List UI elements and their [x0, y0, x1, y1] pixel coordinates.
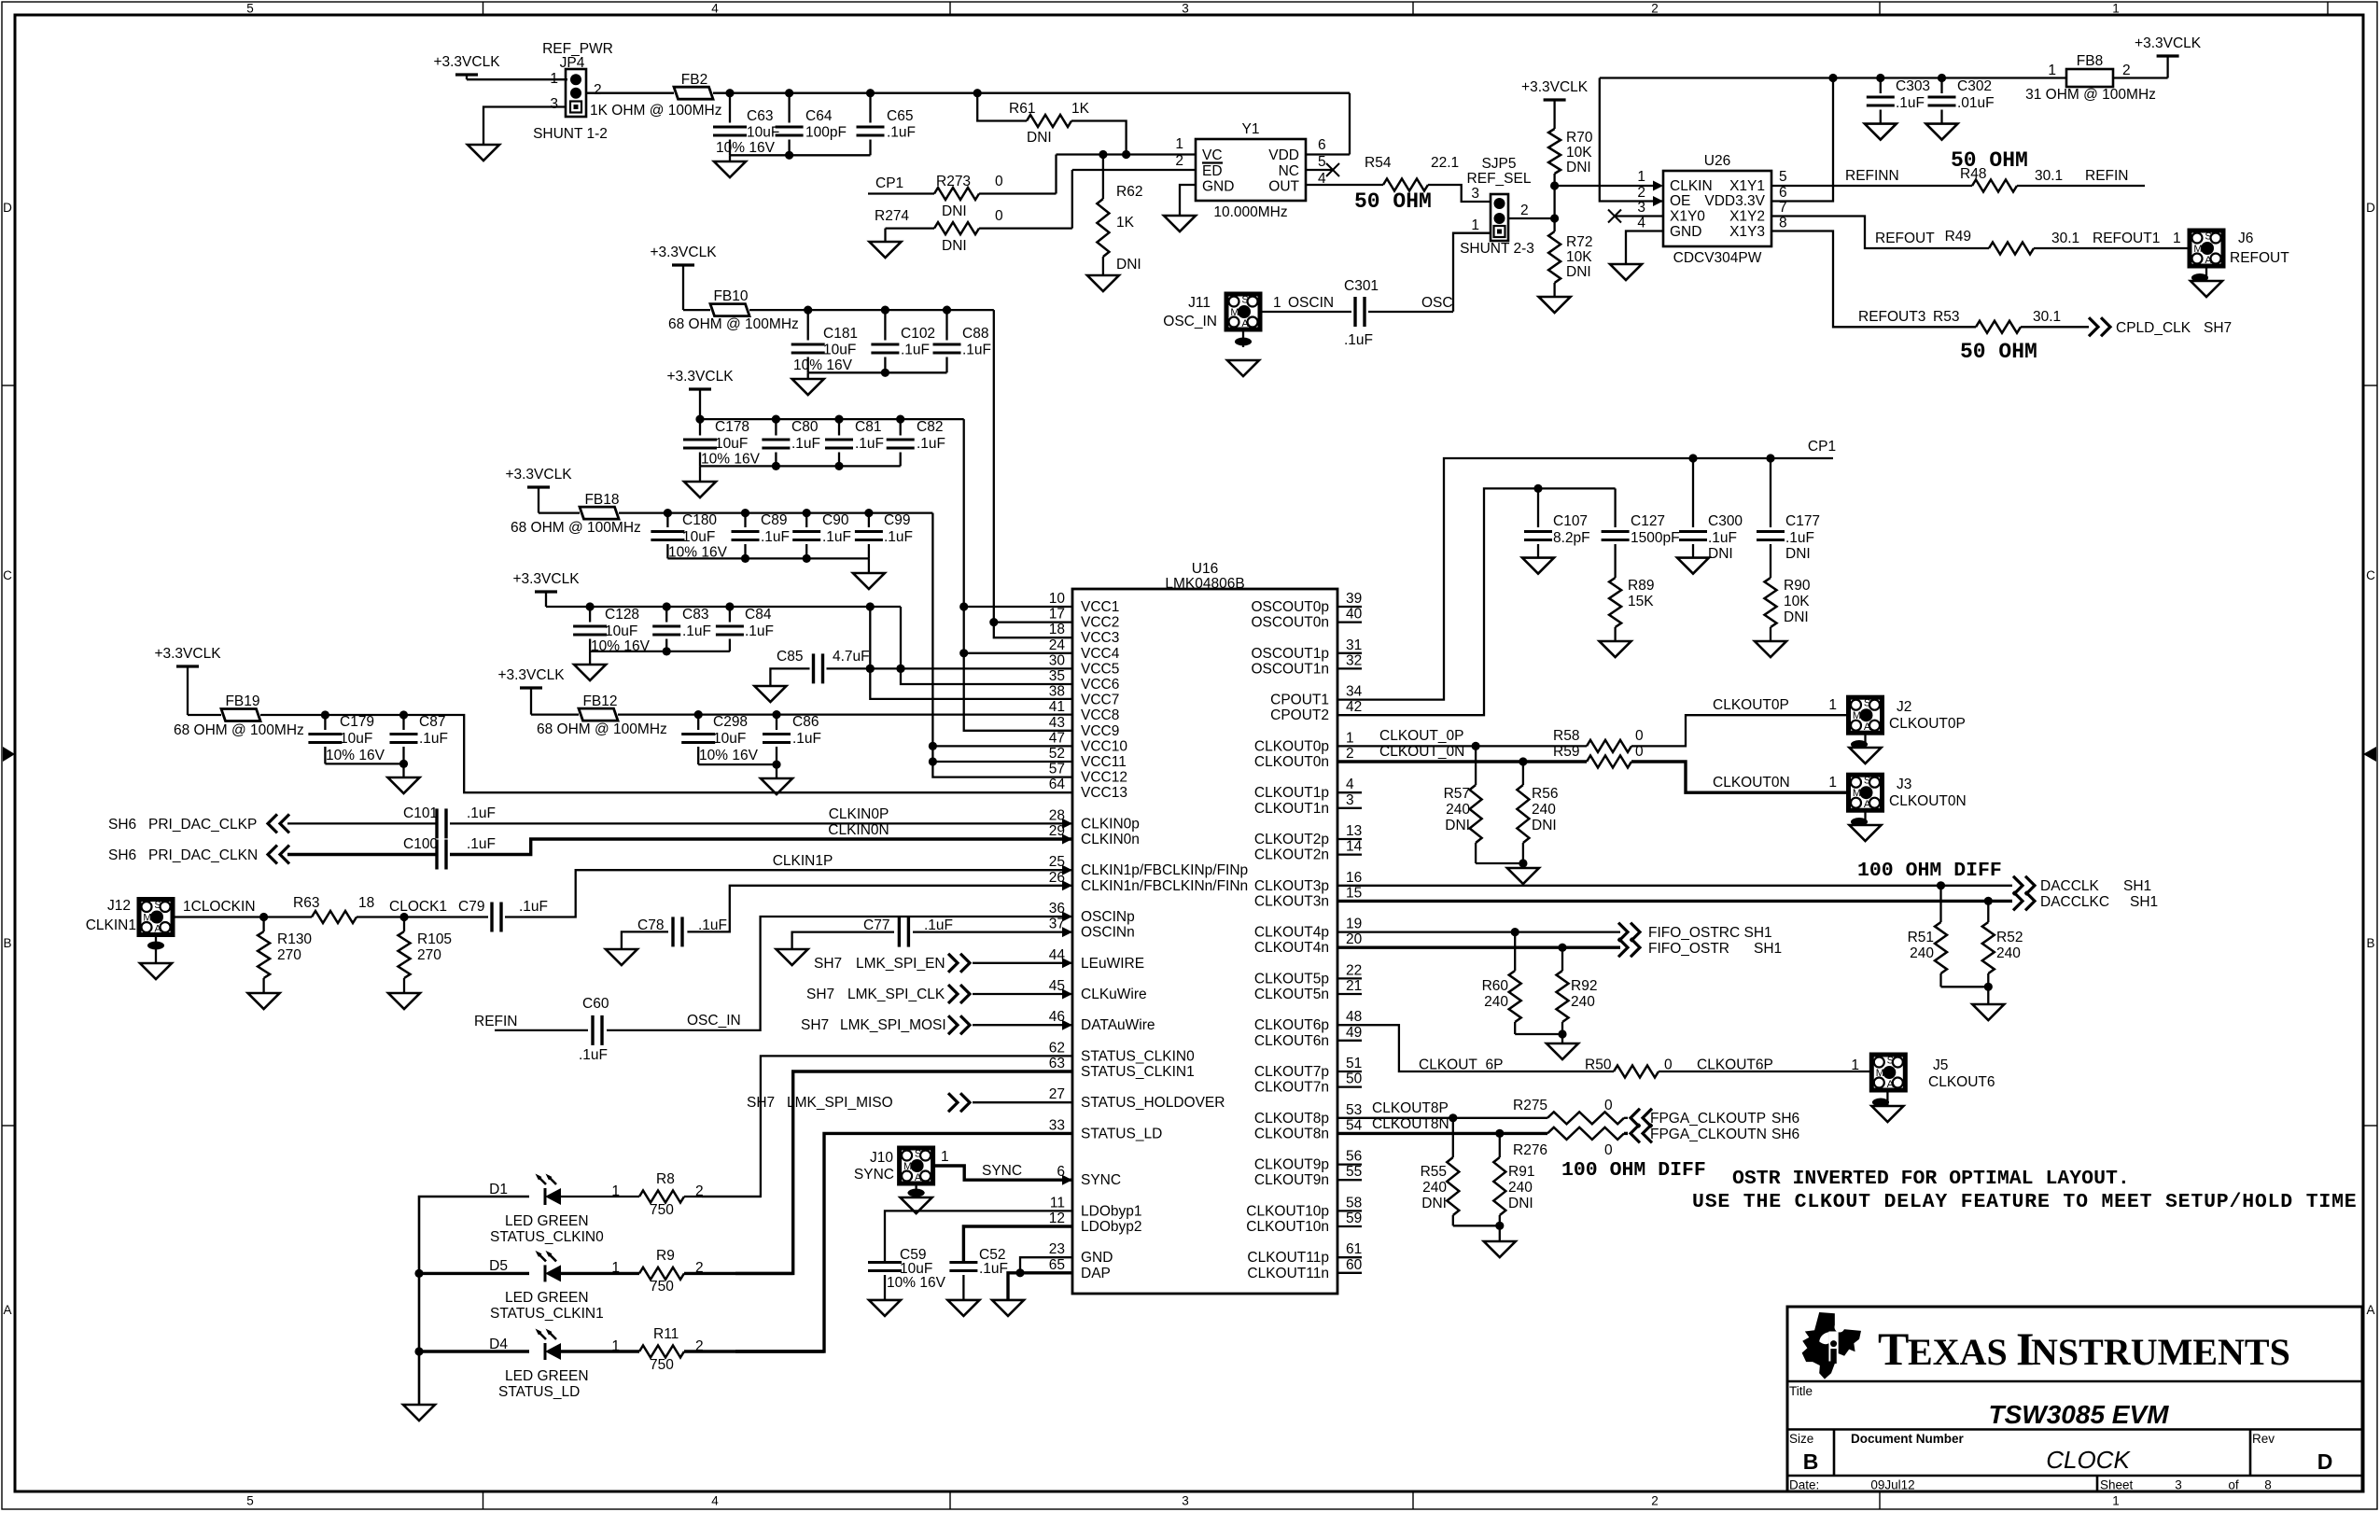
svg-text:61: 61	[1346, 1241, 1362, 1257]
wire R50 to J5	[1659, 1071, 1871, 1072]
U16 pin 64 (VCC13)	[1049, 777, 1127, 801]
svg-text:VCC6: VCC6	[1081, 677, 1119, 693]
svg-text:CLOCK: CLOCK	[2046, 1446, 2131, 1474]
svg-text:VCC11: VCC11	[1081, 754, 1127, 770]
svg-text:15: 15	[1346, 885, 1362, 901]
svg-text:43: 43	[1049, 715, 1065, 731]
svg-text:1: 1	[550, 71, 558, 87]
wire CLKOUT8p (pin53)	[1337, 1117, 1547, 1119]
svg-text:33: 33	[1049, 1117, 1065, 1133]
svg-text:R59: R59	[1553, 744, 1579, 760]
svg-text:3: 3	[1346, 792, 1354, 808]
svg-text:X1Y0: X1Y0	[1670, 209, 1705, 225]
svg-text:SYNC: SYNC	[854, 1167, 894, 1183]
svg-text:.1uF: .1uF	[1896, 95, 1925, 111]
svg-text:R56: R56	[1532, 786, 1558, 802]
svg-text:C127: C127	[1631, 513, 1665, 529]
svg-text:64: 64	[1049, 777, 1066, 792]
svg-text:09Jul12: 09Jul12	[1870, 1478, 1914, 1492]
svg-text:LED GREEN: LED GREEN	[505, 1290, 589, 1306]
svg-text:CLKOUT_6P: CLKOUT_6P	[1419, 1057, 1503, 1073]
svg-text:.1uF: .1uF	[887, 125, 916, 141]
svg-text:27: 27	[1049, 1086, 1065, 1102]
svg-text:S: S	[1864, 776, 1870, 787]
svg-text:CLKOUT3n: CLKOUT3n	[1254, 893, 1329, 909]
LED D5 (STATUS_CLKIN1)	[544, 1265, 547, 1281]
capacitor C180	[666, 513, 668, 527]
U16 pin 12 (LDObyp2)	[1049, 1211, 1142, 1235]
wire STATUS_LD (pin33 to R11)	[735, 1133, 1072, 1351]
svg-text:CLKOUT8P: CLKOUT8P	[1372, 1100, 1449, 1116]
svg-text:.1uF: .1uF	[698, 917, 727, 933]
svg-text:.1uF: .1uF	[682, 623, 711, 639]
svg-text:240: 240	[1910, 945, 1934, 961]
connector J6 REFOUT	[2190, 231, 2223, 266]
svg-text:A: A	[2366, 1303, 2374, 1317]
svg-text:CLKIN1n/FBCLKINn/FINn: CLKIN1n/FBCLKINn/FINn	[1081, 878, 1248, 894]
svg-text:REFOUT1: REFOUT1	[2093, 231, 2160, 246]
svg-text:DNI: DNI	[942, 238, 967, 254]
ground (C300)	[1677, 558, 1709, 574]
wire CLKIN0N left	[287, 853, 436, 856]
wire Y1 pin1 (VC) net	[1057, 153, 1197, 155]
svg-text:18: 18	[1049, 622, 1065, 637]
svg-text:DNI: DNI	[1566, 264, 1591, 280]
svg-text:M: M	[143, 913, 151, 924]
svg-text:62: 62	[1049, 1040, 1065, 1056]
wire R275 to FPGA_CLKOUTP	[1624, 1117, 1628, 1119]
wire C181/C102/C88 ground rail	[808, 371, 947, 373]
svg-text:.1uF: .1uF	[924, 917, 953, 933]
wire R51/R52 ground rail	[1941, 986, 1989, 987]
svg-text:OSC: OSC	[1421, 295, 1453, 311]
svg-text:OSCOUT0n: OSCOUT0n	[1251, 615, 1329, 631]
svg-text:REFINN: REFINN	[1845, 168, 1899, 184]
svg-text:STATUS_CLKIN0: STATUS_CLKIN0	[490, 1229, 604, 1245]
resistor R52	[1987, 901, 1989, 922]
svg-text:R48: R48	[1960, 166, 1986, 182]
svg-text:3: 3	[1182, 1494, 1189, 1508]
svg-text:STATUS_HOLDOVER: STATUS_HOLDOVER	[1081, 1095, 1225, 1111]
svg-text:3: 3	[1637, 200, 1645, 216]
svg-text:D5: D5	[489, 1258, 508, 1274]
svg-text:SHUNT 1-2: SHUNT 1-2	[533, 126, 608, 142]
wire D4 anode to R11	[561, 1350, 639, 1352]
svg-text:FB2: FB2	[681, 72, 707, 88]
svg-text:65: 65	[1049, 1257, 1065, 1273]
svg-text:VCC10: VCC10	[1081, 738, 1127, 754]
off-page arrow PRI_DAC_CLKP	[268, 814, 289, 833]
svg-text:100pF: 100pF	[805, 125, 847, 141]
connector J2 CLKOUT0P	[1849, 697, 1883, 733]
svg-text:CLKIN0p: CLKIN0p	[1081, 816, 1140, 832]
svg-text:DNI: DNI	[1566, 160, 1591, 175]
U16 pin 4 (CLKOUT1p)	[1254, 777, 1362, 801]
U16 pin 3 (CLKOUT1n)	[1254, 792, 1362, 817]
svg-text:34: 34	[1346, 684, 1363, 700]
svg-text:Sheet: Sheet	[2100, 1478, 2134, 1492]
svg-text:X1Y3: X1Y3	[1729, 224, 1765, 240]
ground (LED bus)	[403, 1405, 435, 1421]
svg-text:CP1: CP1	[1808, 439, 1836, 455]
ground (C63 rail)	[714, 161, 746, 177]
svg-text:CLKOUT2n: CLKOUT2n	[1254, 847, 1329, 863]
svg-text:CLKOUT9p: CLKOUT9p	[1254, 1157, 1329, 1173]
svg-text:A: A	[1864, 799, 1871, 810]
svg-text:16: 16	[1346, 870, 1362, 886]
svg-text:R8: R8	[656, 1171, 675, 1187]
wire CLKOUT4n FIFO_OSTR	[1337, 946, 1620, 949]
svg-text:CLKOUT1n: CLKOUT1n	[1254, 801, 1329, 817]
svg-text:1: 1	[1637, 169, 1645, 185]
U16 pin 27 (STATUS_HOLDOVER)	[1049, 1086, 1225, 1111]
svg-text:270: 270	[277, 947, 301, 963]
U16 pin 34 (CPOUT1)	[1270, 684, 1362, 708]
svg-text:CLKOUT6P: CLKOUT6P	[1697, 1057, 1773, 1073]
wire R11 out	[684, 1350, 824, 1352]
svg-text:240: 240	[1996, 945, 2021, 961]
svg-text:24: 24	[1049, 637, 1066, 653]
wire CLKOUT3p DACCLK	[1337, 885, 2012, 887]
svg-text:D: D	[3, 201, 12, 215]
svg-text:CLKOUT0P: CLKOUT0P	[1713, 697, 1789, 713]
U16 pin 6 (SYNC)	[1057, 1164, 1121, 1188]
svg-text:10K: 10K	[1566, 249, 1592, 265]
ground (J2)	[1850, 748, 1882, 763]
wire REFIN net	[2017, 185, 2145, 187]
ground (C78)	[606, 949, 637, 965]
svg-text:FB12: FB12	[582, 693, 617, 709]
svg-text:23: 23	[1049, 1241, 1065, 1257]
svg-text:100 OHM DIFF: 100 OHM DIFF	[1857, 860, 2002, 882]
svg-text:C89: C89	[761, 512, 787, 528]
U16 pin 41 (VCC8)	[1049, 699, 1120, 723]
J2 ground via	[1864, 733, 1866, 748]
svg-text:270: 270	[417, 947, 441, 963]
Y1 pin3 GND wire	[1180, 185, 1196, 216]
svg-text:2: 2	[1637, 185, 1645, 201]
svg-text:3: 3	[2175, 1478, 2182, 1492]
svg-text:1: 1	[1175, 136, 1183, 152]
svg-text:21: 21	[1346, 978, 1362, 994]
svg-text:31: 31	[1346, 637, 1362, 653]
wire OSC_IN to pin36	[607, 917, 1072, 1030]
svg-text:5: 5	[1318, 154, 1326, 170]
wire REFINN net	[1771, 185, 1972, 187]
svg-text:CLKOUT11p: CLKOUT11p	[1247, 1250, 1329, 1266]
wire FB10 rail to U16 VCC2/VCC3	[994, 310, 1072, 637]
svg-text:DNI: DNI	[1027, 130, 1052, 146]
wire R9 out	[684, 1272, 793, 1275]
power symbol +3.3VCLK (FB18)	[527, 485, 550, 488]
U16 pin 45 (CLKuWire)	[1049, 978, 1147, 1002]
U16 pin 57 (VCC12)	[1049, 762, 1127, 786]
U16 pin 29 (CLKIN0n)	[1049, 823, 1140, 847]
wire CLKOUT8n (pin54)	[1337, 1132, 1547, 1135]
svg-text:CPOUT1: CPOUT1	[1270, 693, 1329, 708]
svg-text:VCC2: VCC2	[1081, 615, 1119, 631]
svg-text:FB18: FB18	[584, 492, 619, 508]
svg-text:CP1: CP1	[875, 175, 903, 191]
svg-text:31 OHM @ 100MHz: 31 OHM @ 100MHz	[2025, 87, 2156, 103]
svg-text:0: 0	[995, 174, 1003, 189]
resistor R51	[1939, 886, 1941, 922]
svg-text:39: 39	[1346, 591, 1362, 607]
svg-text:JP4: JP4	[560, 55, 585, 71]
svg-text:CLKOUT9n: CLKOUT9n	[1254, 1172, 1329, 1188]
svg-text:CLKOUT4p: CLKOUT4p	[1254, 925, 1329, 941]
wire LMK_SPI_MISO to pin27	[973, 1101, 1072, 1103]
U16 pin 26 (CLKIN1n/FBCLKINn/FINn)	[1049, 870, 1248, 894]
capacitor C79	[490, 903, 493, 932]
wire D1 anode to R8	[561, 1196, 639, 1197]
svg-text:3: 3	[1471, 186, 1479, 202]
svg-text:.1uF: .1uF	[962, 343, 991, 358]
svg-text:Rev: Rev	[2252, 1432, 2275, 1446]
svg-text:REFOUT: REFOUT	[1875, 231, 1935, 246]
capacitor C179	[324, 715, 326, 730]
svg-text:10uF: 10uF	[682, 529, 715, 545]
capacitor C100	[435, 840, 438, 870]
U26 pin4 (GND) wire	[1626, 231, 1663, 265]
capacitor C127	[1614, 488, 1616, 527]
svg-text:M: M	[1876, 1068, 1884, 1079]
svg-text:SJP5: SJP5	[1481, 156, 1516, 172]
capacitor C89	[744, 513, 746, 527]
wire REFIN to C60	[495, 1029, 588, 1031]
ground (R105)	[388, 993, 420, 1009]
svg-text:C88: C88	[962, 326, 988, 342]
svg-text:10% 16V: 10% 16V	[793, 357, 853, 373]
svg-text:10uF: 10uF	[715, 436, 748, 452]
wire R58 to J2	[1631, 715, 1849, 746]
wire Y1 OUT to R54	[1306, 184, 1383, 186]
wire C78 to pin26	[687, 886, 1072, 932]
U16 pin 30 (VCC5)	[1049, 652, 1120, 677]
svg-text:C86: C86	[792, 714, 819, 730]
svg-text:8: 8	[2264, 1478, 2272, 1492]
wire D5 anode to R9	[561, 1272, 639, 1275]
svg-text:CLKOUT0N: CLKOUT0N	[1889, 793, 1967, 809]
svg-text:C179: C179	[340, 714, 374, 730]
svg-text:R55: R55	[1421, 1164, 1447, 1180]
svg-text:57: 57	[1049, 762, 1065, 777]
U16 pin 58 (CLKOUT10p)	[1246, 1195, 1362, 1219]
ground (J5)	[1871, 1106, 1903, 1122]
svg-text:R9: R9	[656, 1248, 675, 1264]
svg-text:C84: C84	[745, 607, 772, 623]
wire C301 to OSC (SJP5)	[1368, 311, 1453, 313]
svg-text:USE THE CLKOUT DELAY FEATURE T: USE THE CLKOUT DELAY FEATURE TO MEET SET…	[1692, 1191, 2358, 1213]
svg-text:CLKIN1P: CLKIN1P	[773, 853, 833, 869]
wire C179/C87 ground rail	[325, 763, 403, 764]
svg-text:R276: R276	[1513, 1142, 1547, 1158]
capacitor C86	[776, 715, 777, 730]
U16 pin 24 (VCC4)	[1049, 637, 1120, 662]
capacitor C102	[884, 310, 886, 340]
svg-text:R62: R62	[1116, 184, 1142, 200]
svg-text:6: 6	[1318, 137, 1326, 153]
ground (C128 rail)	[574, 665, 606, 680]
svg-text:C128: C128	[605, 607, 639, 623]
svg-text:CLKIN0N: CLKIN0N	[828, 822, 889, 838]
svg-text:SH1: SH1	[2130, 894, 2158, 910]
svg-text:Size: Size	[1789, 1432, 1813, 1446]
resistor R130	[262, 917, 264, 932]
svg-text:of: of	[2228, 1478, 2239, 1492]
svg-text:REFIN: REFIN	[474, 1014, 518, 1029]
svg-text:VDD: VDD	[1268, 147, 1299, 163]
U16 pin 59 (CLKOUT10n)	[1246, 1211, 1362, 1235]
off-page arrow DACCLKC	[2013, 891, 2035, 910]
ground (J3)	[1850, 825, 1882, 841]
U16 pin 35 (VCC6)	[1049, 668, 1120, 693]
wire C78 to ground	[622, 931, 668, 949]
svg-text:SHUNT 2-3: SHUNT 2-3	[1460, 241, 1534, 257]
ground (R89)	[1600, 641, 1631, 657]
U16 pin 18 (VCC3)	[1049, 622, 1120, 646]
svg-text:750: 750	[650, 1279, 674, 1295]
power symbol +3.3VCLK (JP4)	[455, 73, 478, 76]
ferrite bead FB18	[580, 507, 619, 519]
U16 pin 44 (LEuWIRE)	[1049, 947, 1144, 972]
ground (JP4)	[468, 145, 499, 161]
svg-text:VCC1: VCC1	[1081, 599, 1119, 615]
title block	[1787, 1307, 2362, 1491]
U16 pin 42 (CPOUT2)	[1270, 699, 1362, 723]
U16 pin 61 (CLKOUT11p)	[1247, 1241, 1362, 1266]
svg-text:DAP: DAP	[1081, 1266, 1111, 1281]
svg-text:FB8: FB8	[2077, 53, 2103, 69]
J10 ground via	[915, 1183, 917, 1197]
wire U26 pin7 to REFOUT	[1771, 217, 1989, 249]
resistor R61	[977, 93, 1027, 121]
svg-text:SH6: SH6	[108, 847, 136, 863]
capacitor C303	[1880, 78, 1882, 94]
capacitor C90	[805, 513, 807, 527]
LED D1 (STATUS_CLKIN0)	[544, 1188, 547, 1205]
svg-text:10uF: 10uF	[747, 125, 779, 141]
svg-text:1: 1	[1471, 217, 1479, 233]
U16 pin 11 (LDObyp1)	[1050, 1195, 1142, 1219]
svg-text:DNI: DNI	[1708, 546, 1733, 562]
svg-text:.1uF: .1uF	[792, 731, 821, 747]
svg-text:CLKOUT2p: CLKOUT2p	[1254, 832, 1329, 847]
svg-text:C60: C60	[582, 996, 609, 1012]
wire vertical bus (C128 rail to VCC6 pin38)	[870, 607, 1072, 699]
svg-text:20: 20	[1346, 931, 1363, 947]
svg-text:2: 2	[594, 82, 602, 98]
svg-text:30.1: 30.1	[2033, 309, 2061, 325]
svg-text:CLKOUT6: CLKOUT6	[1928, 1074, 1995, 1090]
power symbol +3.3VCLK (C128)	[535, 590, 557, 593]
capacitor C83	[665, 607, 667, 623]
svg-text:B: B	[3, 936, 11, 950]
svg-text:R54: R54	[1365, 155, 1392, 171]
wire C128 row ground rail	[590, 651, 730, 652]
jumper JP4	[566, 69, 586, 117]
svg-text:10.000MHz: 10.000MHz	[1213, 204, 1287, 220]
svg-text:Date:: Date:	[1789, 1478, 1819, 1492]
U16 pin 28 (CLKIN0p)	[1049, 807, 1140, 832]
wire Y1 pin2 (ED) net	[1072, 169, 1196, 171]
svg-text:C64: C64	[805, 108, 833, 124]
svg-text:5: 5	[246, 2, 254, 16]
ground (R56)	[1507, 868, 1539, 884]
svg-text:CLKOUT0p: CLKOUT0p	[1254, 738, 1329, 754]
off-page arrow PRI_DAC_CLKN	[268, 846, 289, 864]
svg-text:1K OHM @ 100MHz: 1K OHM @ 100MHz	[590, 103, 722, 119]
wire 1CLOCKIN	[173, 916, 312, 917]
svg-text:49: 49	[1346, 1025, 1362, 1041]
svg-text:J5: J5	[1933, 1057, 1948, 1073]
connector J3 CLKOUT0N	[1849, 775, 1883, 810]
capacitor C178	[699, 419, 701, 435]
svg-text:LED GREEN: LED GREEN	[505, 1213, 589, 1229]
svg-text:.01uF: .01uF	[1957, 95, 1995, 111]
svg-text:100 OHM DIFF: 100 OHM DIFF	[1561, 1159, 1706, 1182]
svg-text:DNI: DNI	[1784, 609, 1809, 625]
svg-text:B: B	[1803, 1449, 1819, 1474]
svg-text:R105: R105	[417, 931, 452, 947]
ground (R274)	[870, 242, 902, 258]
IC U16 LMK04806B box	[1072, 589, 1337, 1294]
svg-text:CLKuWire: CLKuWire	[1081, 987, 1147, 1002]
ground (C87)	[388, 777, 420, 793]
svg-text:R57: R57	[1444, 786, 1470, 802]
svg-text:10% 16V: 10% 16V	[716, 140, 776, 156]
wire R57/R56 ground rail	[1476, 862, 1523, 864]
U16 pin 40 (OSCOUT0n)	[1251, 607, 1362, 631]
svg-text:OSCINp: OSCINp	[1081, 909, 1135, 925]
ground (J12)	[140, 963, 172, 979]
svg-text:OSCOUT0p: OSCOUT0p	[1251, 599, 1329, 615]
svg-text:30.1: 30.1	[2035, 168, 2063, 184]
svg-text:OSCOUT1p: OSCOUT1p	[1251, 646, 1329, 662]
ground (J10)	[901, 1197, 932, 1213]
svg-text:LMK04806B: LMK04806B	[1165, 576, 1244, 592]
ground (C180 rail)	[853, 573, 885, 589]
capacitor C60	[591, 1015, 594, 1045]
svg-text:S: S	[1887, 1056, 1894, 1067]
svg-text:T: T	[1878, 1323, 1909, 1375]
wire C79 to pin25 (CLKIN1P)	[505, 870, 1072, 917]
svg-text:CLKIN: CLKIN	[1670, 178, 1713, 194]
svg-text:.1uF: .1uF	[467, 805, 496, 821]
svg-text:VCC5: VCC5	[1081, 661, 1119, 677]
svg-text:DACCLK: DACCLK	[2040, 878, 2100, 894]
svg-text:CLKOUT7p: CLKOUT7p	[1254, 1064, 1329, 1080]
svg-text:C63: C63	[747, 108, 773, 124]
svg-text:J3: J3	[1897, 777, 1911, 792]
svg-text:0: 0	[1635, 744, 1644, 760]
svg-text:0: 0	[1635, 728, 1644, 744]
capacitor C77	[898, 917, 901, 947]
IC U26 CDCV304PW	[1663, 171, 1771, 246]
svg-text:SH7: SH7	[814, 956, 842, 972]
svg-text:CLKOUT0N: CLKOUT0N	[1713, 775, 1790, 791]
svg-text:240: 240	[1508, 1180, 1533, 1196]
svg-text:ED: ED	[1202, 163, 1223, 179]
U16 pin 52 (VCC11)	[1049, 746, 1127, 770]
svg-text:56: 56	[1346, 1149, 1362, 1165]
U16 pin 65 (DAP)	[1049, 1257, 1111, 1281]
capacitor C128	[589, 607, 591, 623]
svg-text:J6: J6	[2238, 231, 2253, 246]
U16 pin 48 (CLKOUT6p)	[1254, 1009, 1362, 1033]
svg-text:OSCOUT1n: OSCOUT1n	[1251, 661, 1329, 677]
svg-text:.1uF: .1uF	[1785, 530, 1814, 546]
